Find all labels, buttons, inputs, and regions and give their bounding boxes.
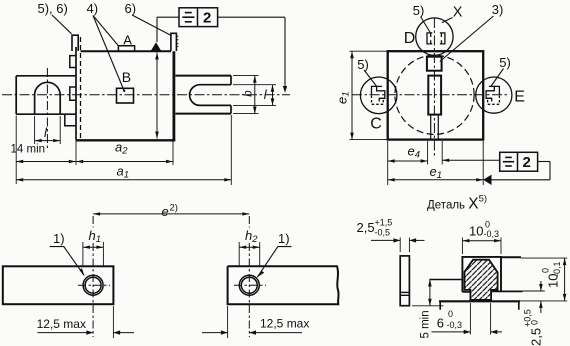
svg-text:1): 1)	[53, 231, 65, 246]
svg-text:-0,5: -0,5	[375, 227, 391, 237]
svg-text:6): 6)	[125, 1, 137, 16]
svg-text:E: E	[514, 89, 525, 106]
svg-text:+1,5: +1,5	[375, 217, 393, 227]
svg-text:12,5 max: 12,5 max	[260, 317, 309, 331]
svg-text:2,5: 2,5	[529, 328, 544, 346]
svg-text:5), 6): 5), 6)	[38, 1, 68, 16]
svg-text:-0,3: -0,3	[484, 229, 500, 239]
svg-text:0: 0	[448, 309, 453, 319]
svg-text:b: b	[243, 90, 255, 97]
svg-text:3): 3)	[492, 2, 504, 17]
svg-text:X: X	[453, 4, 463, 20]
svg-text:5): 5)	[357, 57, 369, 72]
svg-text:A: A	[123, 32, 132, 47]
svg-text:B: B	[122, 69, 131, 85]
svg-text:5): 5)	[413, 3, 425, 18]
svg-text:2): 2)	[170, 203, 178, 214]
svg-text:1): 1)	[278, 231, 290, 246]
svg-text:5 min: 5 min	[420, 310, 432, 338]
svg-text:2: 2	[523, 154, 531, 171]
svg-text:0: 0	[541, 268, 551, 273]
svg-text:10: 10	[469, 224, 483, 239]
svg-text:6: 6	[437, 315, 444, 330]
svg-text:D: D	[404, 30, 416, 47]
svg-text:-0,3: -0,3	[447, 320, 463, 330]
svg-text:e: e	[162, 204, 169, 219]
svg-text:4): 4)	[87, 1, 99, 16]
svg-text:5): 5)	[499, 55, 511, 70]
svg-text:-0,1: -0,1	[552, 261, 562, 277]
svg-text:2: 2	[203, 9, 211, 26]
svg-text:2,5: 2,5	[357, 220, 375, 235]
svg-text:12,5 max: 12,5 max	[37, 317, 86, 331]
svg-text:0: 0	[485, 220, 490, 230]
svg-text:C: C	[370, 115, 382, 132]
svg-text:0: 0	[530, 320, 540, 325]
svg-text:14 min: 14 min	[11, 144, 46, 156]
